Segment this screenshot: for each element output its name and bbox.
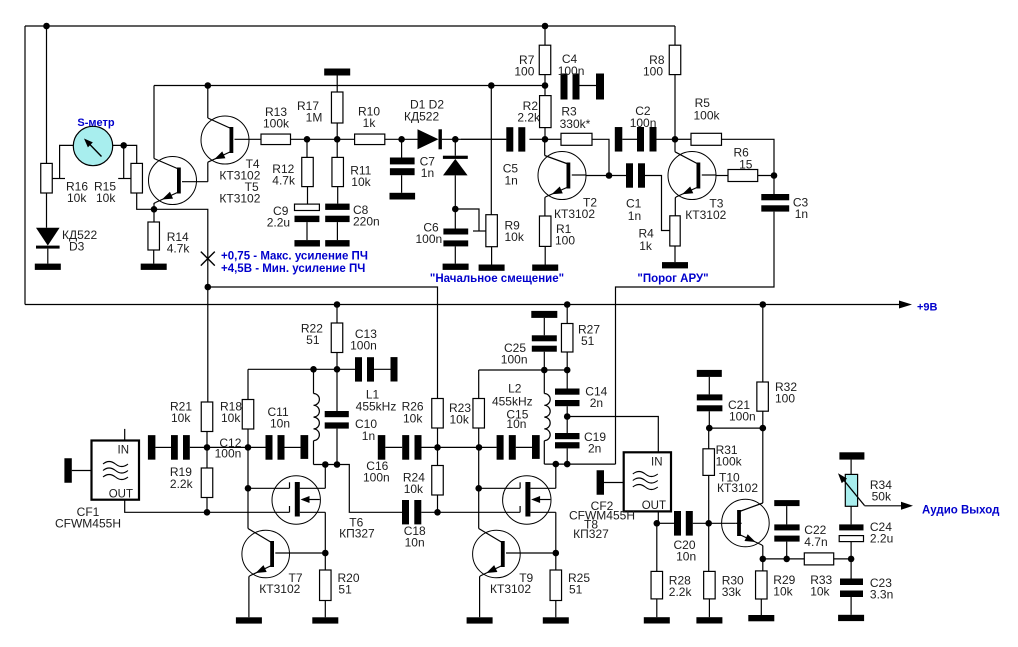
svg-text:2n: 2n: [588, 442, 601, 456]
resistor R24: [437, 447, 439, 465]
resistor R10: [355, 134, 385, 145]
resistor R7: [539, 45, 551, 74]
wire base node to C5: [529, 138, 545, 140]
diode D2: [454, 139, 456, 155]
terminal C12 input bar: [148, 435, 156, 460]
resistor R20: [324, 553, 326, 570]
capacitor C18: [402, 500, 409, 524]
wire left border: [24, 26, 26, 305]
svg-text:"Начальное смещение": "Начальное смещение": [430, 273, 564, 285]
resistor R12: [306, 139, 308, 157]
node junction C24 C23 R33: [848, 556, 855, 563]
wire R15 bottom to emitter node: [137, 193, 154, 209]
wire R1 to ground: [544, 246, 546, 264]
wire R9 wiper: [455, 209, 479, 231]
svg-text:51: 51: [306, 333, 320, 347]
svg-text:2.2k: 2.2k: [517, 111, 541, 125]
wire R21 to node: [206, 432, 208, 469]
node junction T2 base: [542, 136, 549, 143]
diode D1: [418, 129, 439, 149]
svg-text:"Порог АРУ": "Порог АРУ": [637, 273, 708, 285]
wire R16 column from top rail: [46, 26, 48, 163]
svg-text:100n: 100n: [558, 64, 585, 78]
wire R8 column from top rail: [674, 26, 676, 45]
wire R6 to C3 node: [758, 175, 774, 177]
svg-text:1n: 1n: [795, 207, 808, 221]
svg-text:КТ3102: КТ3102: [685, 208, 726, 222]
capacitor C2 terminal bar: [615, 127, 623, 152]
terminal C16 bar: [378, 435, 386, 460]
node junction AGC X column: [205, 284, 212, 291]
node junction T9 collector R25: [553, 550, 560, 557]
diode D3: [36, 228, 60, 246]
wire T2 collector: [572, 174, 586, 176]
svg-text:10k: 10k: [67, 191, 87, 205]
wire AGC line y85: [154, 85, 545, 87]
svg-text:10k: 10k: [810, 585, 830, 599]
wire CF2 OUT: [657, 511, 659, 523]
resistor R25: [555, 553, 557, 570]
power bar R17: [324, 69, 350, 76]
svg-text:100: 100: [514, 65, 534, 79]
svg-text:2.2u: 2.2u: [870, 532, 893, 546]
transistor T8 mosfet: [503, 476, 551, 524]
svg-text:10k: 10k: [450, 413, 470, 427]
svg-text:S-метр: S-метр: [77, 117, 114, 129]
svg-text:10n: 10n: [676, 550, 696, 564]
svg-text:2.2u: 2.2u: [267, 215, 290, 229]
capacitor C6: [454, 209, 456, 229]
capacitor C21: [708, 377, 710, 395]
terminal CF1 input: [64, 458, 71, 483]
wire T7 collector: [275, 552, 325, 554]
wire C12 node to C11: [207, 446, 266, 448]
svg-text:10n: 10n: [405, 536, 425, 550]
wire T5 base column: [153, 86, 155, 159]
svg-text:33k: 33k: [722, 585, 742, 599]
transistor T6 mosfet: [272, 476, 320, 524]
transistor T7: [242, 530, 290, 578]
svg-text:10k: 10k: [351, 175, 371, 189]
terminal C22 bar: [774, 500, 799, 506]
svg-text:1n: 1n: [362, 429, 375, 443]
ground R30: [696, 617, 722, 623]
wire C3 to AGC feed line: [616, 212, 775, 465]
resistor R17: [331, 92, 343, 123]
wire R7 to AGC node: [544, 75, 546, 96]
resistor R14: [153, 209, 155, 222]
svg-text:100n: 100n: [630, 116, 657, 130]
wire R10 to D1: [385, 138, 418, 140]
resistor R6: [728, 170, 758, 182]
node junction AGC R9: [488, 82, 495, 89]
node junction C12 R21 R19: [204, 444, 211, 451]
svg-text:10k: 10k: [96, 191, 116, 205]
svg-text:КТ3102: КТ3102: [259, 582, 300, 596]
ground R9: [479, 265, 505, 271]
wire C18 to T8 gate1: [421, 511, 520, 513]
wire R17 to node: [336, 123, 338, 139]
wire +9V rail: [25, 304, 900, 306]
wire R5 to C3 column: [722, 139, 775, 175]
svg-text:100: 100: [775, 392, 795, 406]
wire R7 column: [544, 26, 546, 45]
wire CF1 IN stub: [124, 429, 126, 441]
node junction C18 R24: [434, 509, 441, 516]
wire R23 top corner: [478, 370, 480, 399]
potentiometer R34: [850, 460, 852, 475]
wire D1 to node: [442, 138, 506, 140]
svg-text:100k: 100k: [263, 117, 290, 131]
wire gate2: [248, 487, 290, 489]
resistor R26: [432, 399, 444, 429]
meter S-metr: [73, 126, 112, 165]
svg-text:1n: 1n: [505, 174, 518, 188]
svg-text:100n: 100n: [363, 471, 390, 485]
transistor T9: [473, 530, 521, 578]
svg-text:+9В: +9В: [917, 302, 938, 314]
transistor T2: [538, 152, 586, 200]
resistor R30: [708, 523, 710, 571]
node junction S-meter R15: [120, 142, 127, 149]
filter CF2: [624, 452, 671, 511]
node junction D2 C6 R9 wiper: [452, 206, 459, 213]
node junction T10 emitter R29: [760, 556, 767, 563]
ground R20: [312, 617, 338, 623]
capacitor C16: [385, 446, 402, 448]
wire R21 column: [207, 287, 209, 402]
capacitor C24 electrolytic: [850, 506, 852, 524]
resistor R21: [201, 402, 213, 432]
inductor L2: [543, 370, 545, 394]
node junction C10 top: [334, 366, 341, 373]
wire tap to CF2 IN: [567, 417, 658, 453]
node junction C16 R26 R24: [434, 444, 441, 451]
node junction +9V R32: [760, 301, 767, 308]
wire T4 collector to R13: [235, 138, 262, 140]
svg-text:КТ3102: КТ3102: [717, 481, 758, 495]
svg-text:15: 15: [739, 158, 753, 172]
wire R14 to ground: [153, 250, 155, 264]
svg-text:1n: 1n: [421, 166, 434, 180]
wire CF1 OUT to T6 gate1: [125, 500, 290, 513]
ground C23: [838, 615, 864, 621]
svg-text:CFWM455H: CFWM455H: [55, 517, 121, 531]
capacitor C15: [479, 446, 497, 448]
wire R2 to T2 base node: [544, 128, 546, 140]
capacitor C14: [566, 370, 568, 389]
capacitor C10: [336, 369, 338, 411]
node junction D1 C7: [398, 136, 405, 143]
svg-text:1n: 1n: [628, 209, 641, 223]
resistor R32: [762, 305, 764, 383]
node junction T2 collector C1: [606, 172, 613, 179]
svg-text:КД522: КД522: [404, 110, 439, 124]
capacitor C19: [566, 417, 568, 434]
svg-text:10n: 10n: [270, 417, 290, 431]
svg-text:1M: 1M: [306, 111, 323, 125]
resistor R33 horizontal: [804, 553, 833, 565]
node junction R12: [304, 136, 311, 143]
ground R25: [543, 617, 569, 623]
svg-text:51: 51: [581, 334, 595, 348]
node junction +9V R27: [564, 301, 571, 308]
svg-text:100n: 100n: [350, 339, 377, 353]
capacitor C7: [401, 139, 403, 157]
wire R16 wiper: [52, 178, 65, 180]
node junction AGC line T4 base: [205, 82, 212, 89]
svg-text:CFWM455H: CFWM455H: [569, 509, 635, 523]
node junction T6 drain: [322, 461, 329, 468]
wire T5 collector to T4 emitter: [182, 181, 208, 183]
wire emitter node to X column: [154, 209, 208, 287]
node junction T10 base R31 R30: [705, 520, 712, 527]
wire R25 ground: [555, 601, 557, 618]
svg-text:КТ3102: КТ3102: [490, 582, 531, 596]
capacitor C22: [786, 506, 788, 524]
terminal R34 bar: [839, 452, 864, 459]
wire D1 node to C5: [461, 138, 506, 140]
svg-text:100n: 100n: [729, 410, 756, 424]
ground R28: [644, 617, 670, 623]
wire T10 base: [736, 522, 742, 524]
terminal CF2 input: [597, 470, 604, 495]
resistor R22: [336, 305, 338, 324]
svg-text:100k: 100k: [694, 109, 721, 123]
capacitor C13: [355, 357, 362, 381]
node junction C14 top: [564, 367, 571, 374]
node junction +9V R22: [334, 301, 341, 308]
capacitor C25: [543, 318, 545, 335]
node junction C3 R5: [771, 172, 778, 179]
svg-text:220n: 220n: [353, 215, 380, 229]
svg-text:+4,5В - Мин. усиление ПЧ: +4,5В - Мин. усиление ПЧ: [221, 263, 365, 275]
wire top rail: [25, 25, 675, 27]
wire R27 to top node: [566, 352, 568, 370]
svg-text:Аудио Выход: Аудио Выход: [922, 505, 1000, 517]
capacitor C12: [155, 446, 171, 448]
terminal C25 bar: [531, 311, 557, 318]
node junction top rail R7: [542, 23, 549, 30]
svg-text:1k: 1k: [639, 239, 653, 253]
capacitor C9: [307, 187, 309, 205]
node junction R32 T10 collector: [760, 425, 767, 432]
capacitor C3: [773, 176, 775, 195]
wire R18 column to T7 base: [247, 488, 249, 528]
node junction top rail R16: [43, 23, 50, 30]
svg-text:IN: IN: [118, 445, 130, 457]
ground R29: [748, 615, 774, 621]
wire R23 column to T9: [478, 447, 480, 488]
capacitor C1: [609, 175, 626, 177]
node junction T6 gate2: [245, 485, 252, 492]
resistor R4 trimmer: [674, 215, 676, 217]
node junction C11 R18: [245, 444, 252, 451]
resistor R19: [201, 468, 213, 498]
svg-text:455kHz: 455kHz: [356, 400, 397, 414]
svg-text:4.7n: 4.7n: [804, 535, 827, 549]
node junction C10 bottom: [334, 461, 341, 468]
wire T9 collector: [506, 552, 556, 554]
svg-text:+0,75 - Макс. усиление ПЧ: +0,75 - Макс. усиление ПЧ: [221, 251, 368, 263]
ground R4: [662, 262, 688, 268]
wire R13 to node: [291, 138, 355, 140]
inductor L1: [313, 369, 315, 393]
transistor T3: [668, 152, 716, 200]
svg-text:OUT: OUT: [642, 500, 666, 512]
svg-text:4.7k: 4.7k: [167, 242, 191, 256]
node junction AGC R7 R2: [542, 82, 549, 89]
node junction C15 R23: [476, 444, 483, 451]
capacitor C23: [850, 559, 852, 579]
resistor R31: [708, 428, 710, 449]
svg-text:КТ3102: КТ3102: [219, 192, 260, 206]
wire stage1 top node: [247, 369, 249, 399]
node junction R17 R11: [334, 136, 341, 143]
capacitor C11: [266, 435, 273, 460]
node junction C14 C19 tap: [564, 413, 571, 420]
wire R18 column to T6 gate2: [247, 447, 249, 488]
wire AGC line to R26: [208, 287, 438, 399]
wire R15 wiper: [123, 145, 125, 178]
wire R9 column from AGC line: [490, 86, 492, 215]
svg-text:2.2k: 2.2k: [669, 585, 693, 599]
svg-text:455kHz: 455kHz: [492, 395, 533, 409]
svg-text:10n: 10n: [506, 417, 526, 431]
svg-text:51: 51: [338, 583, 352, 597]
ground T7: [236, 617, 262, 623]
wire R22 to top node: [336, 353, 338, 370]
node junction C19 bottom: [564, 461, 571, 468]
wire R9 to ground: [491, 247, 493, 265]
node junction D2: [452, 136, 459, 143]
svg-text:100: 100: [643, 65, 663, 79]
resistor R18: [242, 400, 254, 430]
wire R24 to C18 node: [437, 495, 439, 512]
svg-text:КП327: КП327: [573, 527, 609, 541]
resistor R28: [656, 523, 658, 571]
transistor T10 mirrored: [722, 499, 770, 547]
filter CF1: [92, 441, 140, 500]
svg-text:100: 100: [555, 234, 575, 248]
wire R16 bottom to D3: [46, 193, 48, 228]
resistor R27: [566, 305, 568, 324]
svg-text:3.3n: 3.3n: [870, 588, 893, 602]
wire stage2 top node: [479, 369, 568, 371]
ground R1: [532, 265, 558, 271]
svg-text:10k: 10k: [403, 412, 423, 426]
ground D3: [35, 264, 61, 270]
svg-text:КП327: КП327: [339, 527, 375, 541]
svg-text:10k: 10k: [221, 411, 241, 425]
svg-text:100n: 100n: [215, 447, 242, 461]
node junction T5 emitter R14: [151, 206, 158, 213]
wire R20 ground: [324, 601, 326, 618]
svg-text:OUT: OUT: [109, 489, 133, 501]
terminal L1 tap bar: [301, 435, 309, 459]
svg-text:100k: 100k: [716, 455, 743, 469]
svg-text:D3: D3: [69, 240, 85, 254]
terminal C21 bar: [697, 370, 722, 377]
capacitor C20: [674, 511, 681, 536]
terminal L2 tap bar: [532, 435, 540, 459]
svg-text:50k: 50k: [872, 490, 892, 504]
wire R4 to ground: [674, 246, 676, 262]
svg-text:2n: 2n: [590, 396, 603, 410]
node junction L2 top: [541, 367, 548, 374]
node junction R19 bottom: [204, 509, 211, 516]
wire R3 to T2 collector node: [592, 139, 609, 175]
wire S-meter right to R15: [113, 145, 137, 163]
svg-text:1k: 1k: [363, 116, 377, 130]
wire R23 stubs: [478, 428, 480, 447]
transistor T4: [201, 116, 249, 164]
node X mark AGC input: [201, 252, 215, 266]
wire stage2 tank bottom node: [544, 463, 615, 465]
node junction T3 base R5: [672, 136, 679, 143]
resistor R29: [762, 559, 764, 571]
node junction L1 top: [310, 366, 317, 373]
wire power bar to R17: [336, 75, 338, 92]
resistor R3: [545, 138, 561, 140]
wire emitter row: [763, 558, 805, 560]
wire T3 collector to R6: [702, 174, 716, 176]
resistor R15: [131, 163, 143, 193]
svg-text:10k: 10k: [773, 585, 793, 599]
wire R19 to OUT line: [206, 498, 208, 513]
node junction T8 drain: [553, 461, 560, 468]
node junction T7 collector R20: [322, 550, 329, 557]
wire stage1 tank bottom node: [314, 465, 403, 513]
svg-text:2.2k: 2.2k: [170, 477, 194, 491]
svg-text:100n: 100n: [415, 232, 442, 246]
node +9V arrow: [899, 301, 912, 309]
resistor R9 trimmer: [486, 215, 498, 247]
svg-text:10k: 10k: [171, 411, 191, 425]
resistor R8: [669, 45, 681, 74]
capacitor C2: [622, 138, 637, 140]
resistor R2: [540, 96, 552, 128]
node junction C21 R31: [706, 425, 713, 432]
wire R26 to node: [437, 428, 439, 447]
resistor R5: [675, 138, 691, 140]
svg-text:330k*: 330k*: [560, 117, 591, 131]
svg-text:L2: L2: [508, 382, 522, 396]
node junction C22 bottom: [783, 556, 790, 563]
capacitor C4: [561, 74, 568, 100]
svg-text:КТ3102: КТ3102: [554, 207, 595, 221]
wire audio out: [865, 505, 902, 507]
transistor T5: [149, 157, 197, 205]
svg-text:10k: 10k: [505, 230, 525, 244]
resistor R23: [473, 399, 485, 429]
svg-text:IN: IN: [651, 457, 663, 469]
svg-text:100n: 100n: [501, 353, 528, 367]
svg-text:4.7k: 4.7k: [272, 174, 296, 188]
wire R8 to T3 base node: [674, 75, 676, 140]
node junction CF2 out R28: [654, 520, 661, 527]
resistor R1: [539, 216, 551, 246]
svg-text:51: 51: [569, 583, 583, 597]
resistor R13: [261, 134, 291, 145]
capacitor C5: [506, 127, 513, 151]
wire R18 stubs: [247, 429, 249, 447]
svg-text:10k: 10k: [404, 482, 424, 496]
wire C21 node to R32: [709, 427, 763, 429]
ground R14: [141, 264, 167, 270]
ground T9: [467, 617, 493, 623]
resistor R16: [41, 163, 53, 193]
